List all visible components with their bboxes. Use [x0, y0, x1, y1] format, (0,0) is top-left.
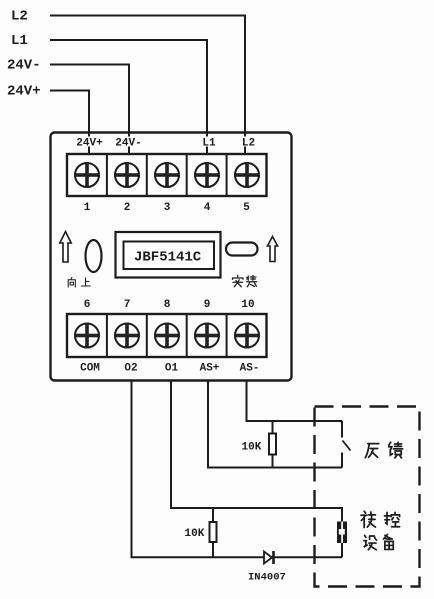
svg-text:10: 10	[241, 299, 254, 311]
nameplate box inner	[124, 242, 215, 270]
svg-text:L1: L1	[11, 33, 28, 49]
svg-text:L2: L2	[11, 9, 28, 25]
terminal strip bottom (pins 6-10)	[67, 314, 267, 357]
label 反馈	[365, 442, 402, 458]
indicator stadium	[226, 243, 258, 256]
svg-text:6: 6	[84, 299, 91, 311]
terminal strip top (pins 1-5)	[67, 154, 267, 196]
wire load bottom to rail	[341, 543, 343, 557]
svg-text:10K: 10K	[185, 528, 205, 540]
nameplate box outer	[116, 232, 221, 278]
screw terminal 10	[234, 323, 260, 349]
screw terminal 9	[194, 323, 220, 349]
svg-text:24V-: 24V-	[115, 138, 141, 150]
svg-text:1: 1	[84, 202, 91, 214]
up-arrow symbol left	[60, 232, 71, 263]
svg-text:3: 3	[164, 202, 171, 214]
module U1 JBF5141C outline	[51, 133, 292, 381]
svg-text:24V+: 24V+	[7, 84, 41, 100]
screw terminal 8	[154, 323, 180, 349]
screw terminal 2	[114, 162, 140, 188]
terminal label L1 (pin 4)	[201, 137, 217, 150]
svg-text:IN4007: IN4007	[248, 572, 286, 584]
svg-text:8: 8	[164, 299, 171, 311]
svg-text:5: 5	[243, 202, 250, 214]
svg-text:9: 9	[204, 299, 211, 311]
switch bottom stub	[341, 453, 343, 468]
load device symbol	[337, 522, 347, 544]
svg-text:L1: L1	[202, 138, 216, 150]
dashed box (external equipment)	[315, 407, 420, 587]
label 被控	[361, 511, 400, 527]
terminal label 24V- (pin 2)	[113, 137, 143, 150]
screw terminal 6	[74, 323, 100, 349]
svg-text:24V-: 24V-	[7, 58, 41, 74]
svg-text:JBF5141C: JBF5141C	[134, 250, 202, 266]
svg-text:O2: O2	[124, 363, 137, 375]
wire 24V+ to terminal 1	[50, 91, 89, 155]
up-arrow symbol right	[267, 237, 277, 262]
svg-text:AS+: AS+	[200, 363, 220, 375]
resistor R1 10K stubs	[272, 421, 274, 468]
screw terminal 1	[74, 162, 100, 188]
svg-text:AS-: AS-	[240, 363, 260, 375]
resistor R2 10K body	[210, 522, 217, 542]
wire O1 down to load top	[171, 380, 342, 522]
wire AS+ down to switch bottom rail	[208, 380, 342, 468]
label 设备	[364, 534, 393, 549]
wire L1 to terminal 4	[50, 40, 207, 154]
resistor R1 10K body	[269, 434, 276, 455]
screw terminal 3	[154, 162, 180, 188]
svg-text:24V+: 24V+	[76, 138, 103, 150]
switch blade	[343, 441, 351, 451]
diode D1 IN4007	[264, 551, 274, 564]
svg-text:2: 2	[124, 202, 131, 214]
screw terminal 7	[114, 323, 140, 349]
svg-text:O1: O1	[165, 363, 179, 375]
screw terminal 5	[234, 162, 260, 188]
terminal label 24V+ (pin 1)	[74, 137, 104, 150]
switch top stub	[341, 421, 343, 438]
wire O2 down and along bottom	[132, 380, 343, 557]
svg-text:7: 7	[124, 299, 131, 311]
label 安装	[233, 275, 257, 287]
svg-text:COM: COM	[80, 363, 100, 375]
wire L2 to terminal 5	[50, 16, 245, 155]
wire 24V- to terminal 2	[50, 65, 129, 155]
screw terminal 4	[194, 162, 220, 188]
ellipse window	[86, 240, 102, 272]
wire AS- down to switch top rail	[247, 380, 343, 421]
terminal label L2 (pin 5)	[240, 137, 256, 150]
svg-text:10K: 10K	[242, 442, 262, 454]
svg-text:L2: L2	[242, 138, 255, 150]
label 向上	[68, 277, 90, 287]
svg-text:4: 4	[204, 202, 211, 214]
resistor R2 10K stubs	[212, 508, 214, 557]
